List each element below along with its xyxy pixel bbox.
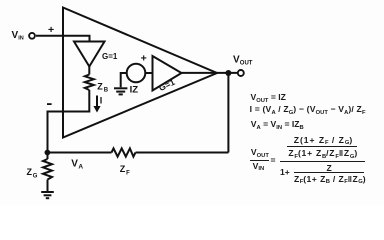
wire: node VA down to resistor ZG: [47, 153, 49, 160]
svg-text:F: F: [126, 170, 130, 176]
svg-text:+: +: [48, 24, 54, 36]
output terminal VOUT (open circle): [238, 70, 244, 76]
fraction bar (numerator): [287, 146, 357, 147]
buffer op-amp A1 (G=1, pointing down): [74, 42, 105, 67]
svg-text:G=1: G=1: [102, 52, 118, 61]
svg-text:Z: Z: [97, 81, 103, 91]
svg-text:Z: Z: [120, 164, 126, 174]
equation 4: numerator of numerator Z(1+ZF/ZG): [294, 135, 353, 147]
svg-text:Z: Z: [27, 167, 33, 177]
equation 4: Z numerator of denominator sub-fraction: [327, 163, 332, 173]
svg-text:B: B: [104, 87, 109, 93]
wire: A1 output to resistor ZB: [88, 67, 90, 75]
wire: node VA to resistor ZF: [48, 152, 112, 154]
svg-text:OUT: OUT: [240, 61, 253, 67]
node VA junction dot: [45, 150, 51, 156]
svg-text:IZ: IZ: [130, 84, 139, 95]
equation 4: 1+ in denominator: [280, 167, 290, 177]
current source IZ (circle): [127, 64, 146, 83]
fraction bar (denominator sub-fraction): [294, 172, 364, 173]
resistor ZB: [85, 75, 94, 91]
label I (current): [100, 96, 103, 106]
svg-text:G: G: [33, 173, 38, 179]
buffer op-amp A2 (G=1, pointing right): [153, 56, 182, 91]
equation line 2: I = (VA / ZG) - (VOUT - VA)/ ZF: [250, 104, 366, 116]
equation line 3: VA = VIN = IZB: [251, 119, 304, 131]
main fraction bar: [280, 161, 366, 162]
wire: VIN terminal to buffer A1 input: [36, 36, 90, 42]
wire: A2 output to output node: [182, 72, 238, 74]
svg-text:V: V: [71, 158, 78, 169]
equation 4 LHS: VOUT over VIN: [251, 147, 269, 159]
wire: ZB bottom down, left, down to node VA: [48, 90, 90, 153]
label G=1 on buffer A2 (rotated): [157, 77, 176, 93]
plus sign above current source: [141, 53, 147, 65]
label VA: [71, 158, 83, 170]
svg-text:IN: IN: [18, 36, 24, 42]
label ZF: [120, 164, 130, 176]
wire: current source left lead to ground: [121, 73, 127, 87]
svg-text:I: I: [100, 96, 103, 106]
equation 4: denominator ZF(1+ZB/ZF||ZG): [294, 174, 366, 186]
wire: resistor ZF to output drop wire: [136, 152, 229, 154]
equation 4: denominator of numerator ZF(1+ZB/ZF||ZG): [288, 148, 358, 160]
label IZ: [130, 84, 139, 95]
wire: output node down to feedback rail: [227, 73, 229, 153]
ground symbol (current source reference): [114, 88, 127, 94]
op-amp U1 (main composite amplifier triangle): [63, 8, 217, 138]
wire: current source to buffer A2 input: [145, 72, 152, 74]
input terminal VIN (open circle): [29, 33, 35, 39]
minus sign at inverting node: [47, 103, 52, 105]
ground symbol (below ZG): [41, 192, 54, 198]
current arrow I (downward): [93, 96, 100, 113]
label ZB: [97, 81, 109, 93]
label VOUT: [233, 54, 253, 66]
svg-text:A: A: [78, 164, 83, 171]
output node junction dot: [225, 70, 231, 76]
svg-text:+: +: [141, 53, 147, 65]
resistor ZF: [112, 148, 136, 156]
wire: resistor ZG to ground: [47, 180, 49, 192]
equation line 1: VOUT = IZ: [251, 92, 286, 104]
label ZG: [27, 167, 38, 179]
label G=1 on buffer A1: [102, 52, 118, 61]
label VIN: [12, 30, 24, 41]
resistor ZG: [43, 159, 52, 180]
plus sign at input: [48, 24, 54, 36]
